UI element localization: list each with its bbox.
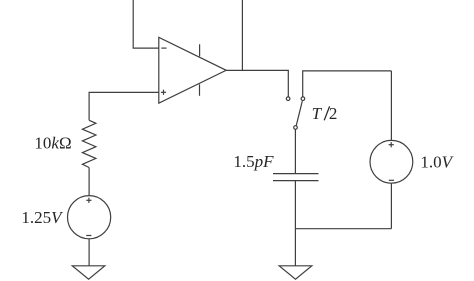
wire plus input [89,92,159,120]
wire capacitor to ground [294,181,296,266]
wire bottom junction to right branch [295,228,391,230]
wire source to ground [88,239,90,266]
svg-text:1.25V: 1.25V [21,208,64,227]
svg-text:1.0V: 1.0V [420,153,454,172]
switch S1 [286,97,304,129]
wire switch pole to capacitor [294,129,296,173]
wire feedback left vertical [133,0,159,48]
ground GND1 [72,266,105,279]
wire switch right contact up [303,71,392,97]
resistor R1 [82,120,96,167]
svg-text:10kΩ: 10kΩ [34,133,71,152]
op-amp U1 [159,37,226,103]
voltage source V1 [68,196,111,239]
ground GND2 [279,266,312,279]
svg-text:2: 2 [329,104,338,123]
svg-text:1.5pF: 1.5pF [233,152,274,171]
wire right branch bottom [390,183,392,229]
wire op-amp output [226,70,288,97]
wire resistor to source [88,168,90,197]
voltage source V2 [370,140,413,183]
capacitor C1 [273,174,319,181]
svg-text:T: T [312,104,323,123]
wire right branch top [390,71,392,141]
wire feedback right vertical [241,0,243,70]
